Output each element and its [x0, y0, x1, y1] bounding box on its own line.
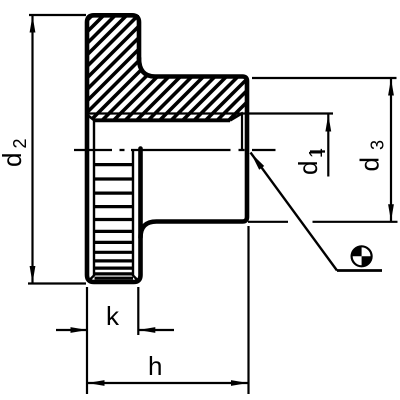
k dimension line (outside arrows) — [56, 329, 88, 331]
knurl ridge line — [95, 272, 134, 275]
knurl ridge line — [95, 163, 134, 166]
d3 dimension line — [390, 78, 392, 222]
d2 dimension line — [31, 15, 33, 284]
nut outer profile (knurled head) — [87, 15, 141, 282]
knurl ridge line — [95, 241, 134, 244]
dimension d2: extension lines — [28, 15, 86, 284]
chamfer edge vertical right — [241, 113, 243, 151]
centerline (axis) — [74, 150, 325, 152]
leader line to thread — [251, 153, 338, 271]
svg-text:h: h — [148, 351, 162, 381]
knurl ridge line — [95, 267, 134, 270]
chamfer right — [230, 113, 243, 121]
knurl ridge line — [95, 218, 134, 221]
knurl ridge line — [95, 177, 134, 180]
dimension d1 line — [327, 114, 329, 177]
svg-text:k: k — [106, 301, 120, 331]
knurl ridge line — [95, 259, 134, 262]
knurl bottom chamfer right — [133, 276, 138, 281]
knurl chamfer edge right — [132, 151, 134, 277]
knurl chamfer edge left — [93, 121, 95, 277]
dimension d3: extension lines — [248, 78, 398, 222]
dimension h — [87, 226, 249, 394]
knurl ridge line — [95, 230, 134, 233]
knurl ridge line — [95, 277, 134, 280]
knurl bottom chamfer left — [90, 276, 95, 281]
chamfer left — [88, 115, 95, 121]
knurl ridge line — [95, 192, 134, 195]
section hatching — [0, 0, 382, 130]
datum target symbol (circle with filled quadrants) — [352, 246, 372, 266]
hub (boss) profile with fillets — [139, 58, 247, 238]
knurl ridge line — [95, 205, 134, 208]
dimension k: extension lines — [56, 287, 174, 394]
knurl ridge line — [95, 251, 134, 254]
thread major thin line — [89, 112, 333, 114]
thread minor (hole) line — [95, 118, 231, 122]
